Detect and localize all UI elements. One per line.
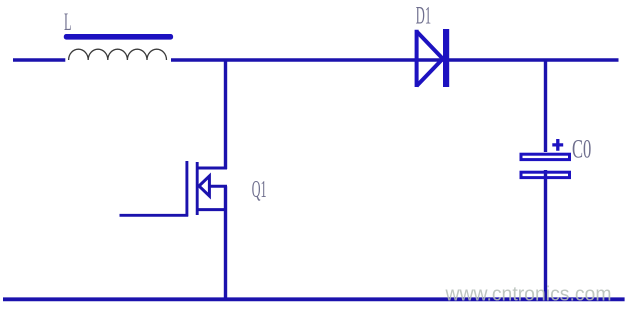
wire bottom rail xyxy=(3,297,625,301)
transistor Q1 source stub xyxy=(197,208,227,211)
capacitor C0 plus sign xyxy=(552,139,563,151)
transistor Q1 body arrow xyxy=(199,176,209,196)
wire capacitor branch lower xyxy=(544,170,547,300)
svg-text:D1: D1 xyxy=(416,3,431,30)
wire MOSFET source vertical xyxy=(224,186,227,300)
wire top rail from inductor through diode to right end xyxy=(171,58,619,62)
transistor Q1 gate line xyxy=(185,161,188,217)
svg-text:www.cntronics.com: www.cntronics.com xyxy=(445,284,612,306)
wire gate lead xyxy=(120,214,189,217)
inductor L core bar xyxy=(64,34,173,40)
transistor Q1 channel line xyxy=(196,162,199,215)
wire capacitor branch upper xyxy=(544,59,547,153)
capacitor C0 top plate xyxy=(521,154,570,159)
svg-text:Q1: Q1 xyxy=(252,177,267,203)
wire top rail left stub xyxy=(13,58,65,62)
inductor L winding arcs xyxy=(69,49,167,60)
transistor Q1 drain stub xyxy=(197,167,227,170)
svg-text:C0: C0 xyxy=(572,135,591,164)
diode D1 triangle xyxy=(417,30,443,87)
wire MOSFET drain vertical xyxy=(224,59,227,170)
diode D1 cathode bar xyxy=(443,29,449,87)
svg-text:L: L xyxy=(64,9,72,36)
transistor Q1 body stub xyxy=(209,185,227,188)
capacitor C0 bottom plate xyxy=(521,172,570,177)
